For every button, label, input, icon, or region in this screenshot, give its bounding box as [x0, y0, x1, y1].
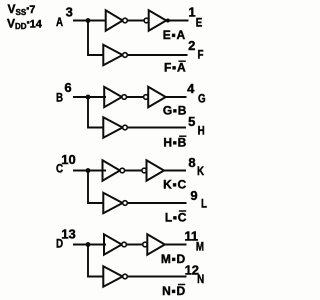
svg-text:E▪A: E▪A — [163, 28, 186, 42]
svg-text:G: G — [198, 93, 206, 106]
svg-text:VSS▪7: VSS▪7 — [8, 2, 36, 17]
svg-text:B: B — [56, 92, 63, 105]
svg-text:L▪C: L▪C — [165, 210, 187, 224]
svg-text:9: 9 — [190, 188, 197, 203]
svg-text:M: M — [196, 241, 204, 254]
svg-text:1: 1 — [188, 4, 195, 19]
svg-text:A: A — [56, 16, 63, 29]
svg-text:8: 8 — [188, 155, 195, 170]
svg-text:F▪A: F▪A — [164, 61, 186, 75]
svg-text:L: L — [201, 198, 207, 211]
svg-text:13: 13 — [61, 227, 75, 242]
svg-text:N: N — [197, 273, 204, 286]
svg-text:5: 5 — [188, 114, 195, 129]
svg-text:4: 4 — [187, 81, 195, 96]
svg-text:M▪D: M▪D — [161, 252, 186, 266]
svg-text:H: H — [198, 125, 205, 138]
svg-text:3: 3 — [66, 4, 73, 19]
svg-text:E: E — [196, 17, 203, 30]
svg-text:K▪C: K▪C — [163, 177, 187, 191]
svg-text:G▪B: G▪B — [163, 103, 187, 117]
svg-text:N▪D: N▪D — [162, 284, 186, 298]
svg-text:2: 2 — [188, 38, 195, 53]
svg-text:VDD▪14: VDD▪14 — [7, 16, 43, 31]
svg-text:H▪B: H▪B — [163, 136, 187, 150]
svg-text:6: 6 — [64, 80, 71, 95]
svg-text:K: K — [197, 166, 204, 179]
svg-text:F: F — [198, 49, 204, 62]
svg-text:10: 10 — [61, 152, 75, 167]
